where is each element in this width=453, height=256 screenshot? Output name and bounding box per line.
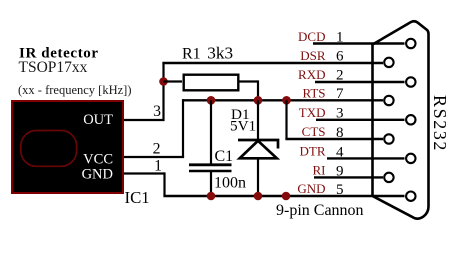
svg-text:100n: 100n <box>214 175 246 192</box>
wire DCD stub to pin 1 <box>313 42 405 44</box>
wire CTS riser <box>285 100 287 139</box>
wire R1 right lead <box>240 80 259 82</box>
wire C1 bottom lead <box>210 172 212 196</box>
pin 6 circle <box>384 58 393 67</box>
svg-text:GND: GND <box>82 167 113 183</box>
svg-text:RI: RI <box>313 163 326 178</box>
svg-text:DCD: DCD <box>298 29 325 44</box>
svg-text:1: 1 <box>154 158 162 175</box>
wire ground rail / GND run to pin 5 <box>163 195 404 197</box>
pin 2 circle <box>406 77 415 86</box>
svg-text:OUT: OUT <box>83 112 113 128</box>
wire GND pin1 riser <box>163 172 165 196</box>
svg-text:3k3: 3k3 <box>207 44 233 63</box>
wire RXD stub to pin 2 <box>315 81 405 83</box>
pin 7 circle <box>384 96 393 105</box>
wire C1 top lead <box>210 100 212 164</box>
IR detector lens <box>21 131 77 167</box>
svg-text:7: 7 <box>336 86 344 102</box>
svg-text:C1: C1 <box>215 148 234 165</box>
wire OUT pin3 horizontal <box>124 119 164 121</box>
svg-text:5: 5 <box>336 182 344 198</box>
svg-text:TXD: TXD <box>299 105 326 120</box>
wire OUT/DSR/R1 vertical riser <box>162 63 164 122</box>
wire VCC rail / RTS run to pin 7 <box>183 99 383 101</box>
wire RI stub to pin 9 <box>314 176 383 178</box>
resistor R1 <box>184 75 239 91</box>
svg-text:IC1: IC1 <box>125 188 150 207</box>
pin 1 circle <box>406 39 415 48</box>
svg-text:2: 2 <box>153 141 161 158</box>
pin 9 circle <box>384 173 393 182</box>
svg-text:DTR: DTR <box>300 144 326 159</box>
junction CTS tie node <box>282 96 291 105</box>
svg-text:GND: GND <box>297 181 325 196</box>
junction GND tie node <box>282 192 291 201</box>
svg-text:3: 3 <box>336 106 344 122</box>
svg-text:RTS: RTS <box>302 86 325 101</box>
wire GND pin1 horizontal <box>124 172 165 174</box>
wire CTS run to pin 8 <box>285 138 383 140</box>
IC1 IR detector body <box>12 101 123 193</box>
wire VCC riser <box>182 99 184 157</box>
svg-text:R1: R1 <box>182 46 201 63</box>
wire D1 top lead <box>257 100 259 140</box>
junction D1 top node <box>254 96 263 105</box>
wire VCC pin2 horizontal <box>124 156 184 158</box>
wire R1 right drop to VCC rail <box>257 80 259 100</box>
wire RTS run to pin 7 already drawn; wire TXD stub to pin 3 <box>316 119 405 121</box>
wire DSR top run to pin 6 <box>162 62 383 64</box>
svg-text:DSR: DSR <box>300 48 326 63</box>
svg-text:CTS: CTS <box>302 124 326 139</box>
pin 3 circle <box>406 115 415 124</box>
svg-text:1: 1 <box>336 30 344 46</box>
svg-text:RXD: RXD <box>298 67 325 82</box>
pin 8 circle <box>384 134 393 143</box>
junction R1 left node <box>159 77 168 86</box>
connector J1 DB9 shell <box>373 21 429 218</box>
wire R1 left lead <box>164 80 183 82</box>
svg-text:6: 6 <box>336 49 344 65</box>
junction C1 bottom node <box>207 192 216 201</box>
capacitor C1 bottom plate <box>189 170 232 173</box>
pin 4 circle <box>406 154 415 163</box>
pin 5 circle <box>406 192 415 201</box>
svg-text:9-pin Cannon: 9-pin Cannon <box>276 202 364 219</box>
svg-text:VCC: VCC <box>83 152 113 168</box>
capacitor C1 top plate <box>189 163 232 166</box>
svg-text:9: 9 <box>336 163 344 179</box>
junction C1 top node <box>207 96 216 105</box>
svg-text:TSOP17xx: TSOP17xx <box>19 59 88 76</box>
zener diode D1 anode triangle <box>240 141 277 159</box>
svg-text:2: 2 <box>336 68 344 84</box>
junction D1 bottom node <box>254 192 263 201</box>
svg-text:5V1: 5V1 <box>230 118 256 135</box>
svg-text:RS232: RS232 <box>430 95 450 152</box>
svg-text:8: 8 <box>336 125 344 141</box>
svg-text:3: 3 <box>153 103 161 120</box>
zener diode D1 cathode bar <box>238 140 278 149</box>
svg-text:4: 4 <box>336 144 344 160</box>
wire D1 bottom lead <box>257 158 259 196</box>
svg-text:(xx - frequency [kHz]): (xx - frequency [kHz]) <box>18 83 131 97</box>
wire DTR stub to pin 4 <box>327 157 405 159</box>
